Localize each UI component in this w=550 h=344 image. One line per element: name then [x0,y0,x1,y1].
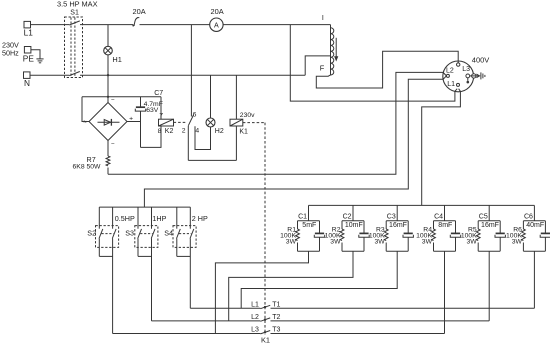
switch S3 pole join [138,255,152,257]
wire S4 to contact L1 [190,307,260,309]
svg-text:C5: C5 [479,214,488,221]
svg-text:T3: T3 [272,327,280,334]
svg-text:7: 7 [159,112,163,119]
inductor core line [330,25,332,75]
wire bus drop C4 [444,205,446,220]
group C3 frame top/bottom [386,220,408,222]
bridge rectifier diamond [89,103,127,141]
ground symbol [36,58,43,60]
resistor R6 [522,221,524,229]
wire C7 bottom to DC+ [140,111,142,147]
svg-text:3W: 3W [422,238,433,245]
wire T2 output [271,320,490,322]
wire PE to ground [31,50,40,59]
svg-text:3W: 3W [330,238,341,245]
svg-text:3W: 3W [512,238,523,245]
wire inductor bottom to connector top pin [316,51,458,88]
wire bus drop C6 [533,205,535,220]
lamp H2 [206,118,215,127]
switch S3 pole 1 [137,207,139,229]
relay coil K1 [230,119,243,126]
switch S4 link (dashed) [179,233,191,235]
svg-text:C4: C4 [434,214,443,221]
svg-text:10mF: 10mF [345,222,363,229]
capacitor C3 [407,221,409,233]
capacitor C2 [363,221,365,233]
switch S3 link (dashed) [140,233,152,235]
switch S1 pole 1 blade [69,21,80,25]
capacitor C5 [499,221,501,233]
wire line to contact 6 [190,25,192,117]
svg-text:8: 8 [158,128,162,135]
svg-text:16mF: 16mF [389,222,407,229]
svg-text:3W: 3W [374,238,385,245]
wire contact 2 rail to K1 coil [188,159,236,161]
connector top pin [457,63,460,66]
resistor R7 [106,156,110,166]
svg-text:L1: L1 [447,81,455,88]
wire ammeter to inductor [223,24,330,26]
resistor R1 [297,221,299,229]
svg-text:20A: 20A [133,7,146,16]
connector PE pin [466,74,470,78]
wire L1 to lamp H1 [107,25,109,47]
K1 actuator dashed link vertical [264,123,266,335]
wire contact 4 to H2 bottom [195,126,211,149]
svg-text:−: − [111,97,115,104]
resistor R5 [477,221,479,229]
wire top line after S1 [80,24,133,26]
contact K2 blade 6-2 [188,115,193,126]
svg-text:2 HP: 2 HP [192,214,208,223]
earth symbol (rotated) [476,74,479,78]
inductor winding [331,28,334,75]
svg-text:K1: K1 [239,129,248,136]
capacitor C7 [136,106,145,108]
group C1 frame top/bottom [298,220,320,222]
svg-text:C1: C1 [298,214,307,221]
wire N to K1 coil top [235,75,237,119]
relay coil K2 [159,119,174,126]
K1 actuator dashed link horizontal [243,122,265,124]
wire rail A from R7 to L2 tab [108,72,443,174]
wire contact 2 down [187,126,189,161]
switch S4 enclosure (dashed) [173,226,196,248]
svg-text:40mF: 40mF [526,222,544,229]
svg-text:H1: H1 [112,55,121,64]
svg-text:−: − [111,140,115,147]
wire H1 to bridge [107,55,109,97]
capacitor C6 [544,221,546,233]
wire from N terminal to S1 [30,74,69,76]
switch S4 pole join [177,255,191,257]
wire C3 bottom to L1 row [241,251,397,308]
wire DC rail [82,96,161,98]
wire C4 bottom to T3 row [444,251,446,333]
connector bottom pin [457,83,460,86]
K2 actuator dashed link [174,121,188,123]
svg-text:N: N [24,78,30,88]
terminal L1 (230V line input) [24,21,31,28]
junction H1 line at DC rail [107,96,109,98]
bridge left loop wire [82,97,89,122]
wire S2 to contact L3 [113,333,261,335]
svg-text:C6: C6 [524,214,533,221]
svg-text:C3: C3 [387,214,396,221]
wire bus drop C2 [352,205,354,220]
wire N to F-tap riser [80,74,305,76]
switch S1 mechanical link [70,18,72,78]
switch S2 pole 2 [112,207,114,229]
svg-text:230v: 230v [240,112,255,119]
terminal PE [24,47,31,54]
wire capacitor bank bus [309,204,535,206]
svg-text:16mF: 16mF [481,222,499,229]
group C4 frame top/bottom [434,220,456,222]
svg-text:2: 2 [182,128,186,135]
switch S4 pole 2 [189,207,191,229]
switch S2 link (dashed) [102,233,114,235]
svg-text:C7: C7 [154,90,163,97]
group C6 frame top/bottom [523,220,545,222]
svg-text:3W: 3W [286,238,297,245]
switch S2 enclosure (dashed) [96,226,119,248]
junction H1 line at N [107,74,109,76]
ammeter A [210,18,223,31]
switch S1 enclosure (dashed) [65,17,83,78]
svg-text:8mF: 8mF [438,222,452,229]
svg-text:L3: L3 [462,66,470,73]
wire bridge - to R7 [107,141,109,157]
svg-text:400V: 400V [472,55,490,64]
wire C6 bottom to T1 row [533,251,535,308]
svg-text:1HP: 1HP [152,214,166,223]
wire rail B from switch bus to L2 tab [144,79,443,207]
group C2 frame top/bottom [342,220,364,222]
connector L2 pin [446,74,449,77]
wire bus drop C5 [488,205,490,220]
contactor K1 contact L1-T1 [260,305,270,308]
svg-text:S3: S3 [125,229,134,238]
svg-text:20A: 20A [211,7,224,16]
svg-text:S2: S2 [87,229,96,238]
svg-text:S4: S4 [164,229,173,238]
resistor R2 [341,221,343,229]
wire T3 output [271,333,445,335]
svg-text:6K8 50W: 6K8 50W [73,164,102,171]
svg-text:L1: L1 [24,27,34,37]
wire switch bus [99,206,190,208]
wire connector L1 tab right / cap bus link [422,91,461,205]
capacitor C1 [319,221,321,233]
switch S3 enclosure (dashed) [135,226,158,248]
resistor R4 [433,221,435,229]
wire bus drop C3 [396,205,398,220]
svg-text:C2: C2 [343,214,352,221]
wire C2 bottom to L2 row [229,251,353,321]
switch S2 pole 1 [98,207,100,229]
wire T1 output [271,307,535,309]
wire bus drop C1 [308,205,310,220]
svg-text:L1: L1 [251,301,259,308]
svg-text:K1: K1 [261,336,270,344]
svg-text:4: 4 [195,128,199,135]
svg-text:F: F [320,64,325,73]
connector L2 tab [443,72,446,79]
svg-text:L2: L2 [446,67,454,74]
svg-text:PE: PE [23,54,35,64]
svg-text:L3: L3 [251,327,259,334]
wire C5 bottom to T2 row [488,251,490,321]
svg-text:3.5 HP MAX: 3.5 HP MAX [57,0,98,8]
contactor K1 contact L3-T3 [260,331,270,334]
svg-text:5mF: 5mF [302,222,316,229]
contactor K1 contact L2-T2 [260,318,270,321]
wire N to H2 top [210,75,212,118]
wire H1 line to bridge top vertex [107,97,109,103]
switch S1 pole 2 blade [69,72,80,76]
capacitor C4 [455,221,457,233]
wire breaker to ammeter [140,24,210,26]
switch S2 pole join [99,255,112,257]
wire K1 coil bottom [235,126,237,160]
wire R7 bottom [107,168,109,175]
wire PE pin to earth [470,75,479,77]
circuit breaker 20A [133,25,135,26]
svg-text:A: A [214,21,219,29]
group C5 frame top/bottom [478,220,500,222]
lamp H1 [104,46,113,55]
switch S4 pole 1 [176,207,178,229]
wire S3 to contact L2 [152,320,261,322]
svg-text:L2: L2 [251,314,259,321]
wire C7 top drop [140,97,142,107]
wire to K2 pin 8 [141,126,162,147]
wire L1 output [290,25,455,102]
resistor R3 [385,221,387,229]
terminal N [24,72,31,79]
wire C1 bottom to L3 row [215,251,308,333]
svg-text:H2: H2 [215,128,224,135]
svg-text:50Hz: 50Hz [2,48,19,57]
svg-text:T2: T2 [272,314,280,321]
svg-text:63V: 63V [146,107,159,114]
switch S3 pole 2 [151,207,153,229]
svg-text:3W: 3W [466,238,477,245]
bridge diode [98,121,120,123]
svg-text:T1: T1 [272,301,280,308]
svg-text:K2: K2 [165,128,174,135]
connector PE bump [472,74,476,78]
wire F-tap riser [305,56,330,75]
connector L1 tab [455,89,461,92]
inductor adjust arrow [335,38,337,58]
svg-text:0.5HP: 0.5HP [115,214,135,223]
svg-text:S1: S1 [70,10,79,17]
wire K2 pin 7 drop [160,97,162,119]
connector body circle [443,61,474,92]
wire bridge + output [127,121,141,123]
wire from L1 terminal to S1 [31,24,70,26]
svg-text:I: I [322,15,324,22]
